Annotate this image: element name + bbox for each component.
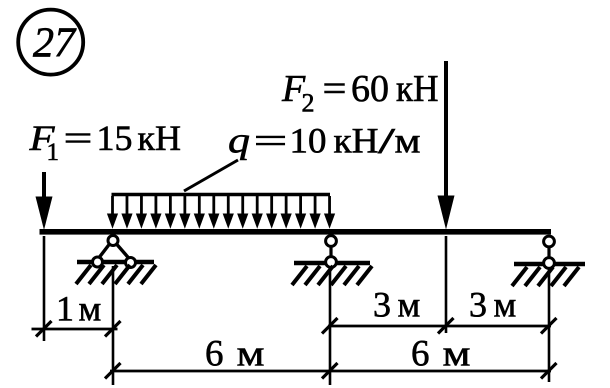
dimension 1 m bbox=[32, 289, 121, 337]
svg-text:q=10кН/м: q=10кН/м bbox=[228, 121, 421, 161]
roller support B (middle) bbox=[294, 236, 370, 268]
svg-text:3м: 3м bbox=[469, 285, 516, 325]
svg-text:1м: 1м bbox=[56, 289, 101, 329]
dimension 3 m / 3 m bbox=[322, 285, 557, 334]
distributed load q (top bar and 16 arrows) bbox=[107, 195, 335, 229]
label F2 = 60 kN bbox=[281, 68, 439, 118]
ground hatching C bbox=[512, 267, 579, 286]
leader line from q label to distributed load bbox=[184, 160, 238, 191]
pin support A (left, fixed hinge) bbox=[77, 236, 154, 268]
extension line below F2 x=446 bbox=[445, 236, 448, 333]
force F2 arrow bbox=[438, 61, 455, 230]
extension line below support C x=549 bbox=[548, 267, 551, 382]
svg-text:27: 27 bbox=[33, 21, 77, 67]
ground hatching A bbox=[76, 265, 156, 284]
label q = 10 kN/m bbox=[228, 121, 421, 161]
figure number badge 27 bbox=[18, 10, 83, 75]
dimension 6 m / 6 m bbox=[105, 333, 557, 378]
extension line at beam left end x=44 bbox=[43, 236, 46, 341]
roller support C (right) bbox=[514, 236, 585, 268]
force F1 arrow bbox=[36, 172, 53, 230]
label F1 = 15 kN bbox=[28, 118, 181, 166]
svg-text:3м: 3м bbox=[373, 285, 420, 325]
ground hatching B bbox=[292, 266, 372, 285]
extension line below support B x=330 bbox=[329, 266, 332, 385]
extension line below support A x=113 bbox=[112, 266, 115, 385]
beam bbox=[40, 229, 552, 235]
